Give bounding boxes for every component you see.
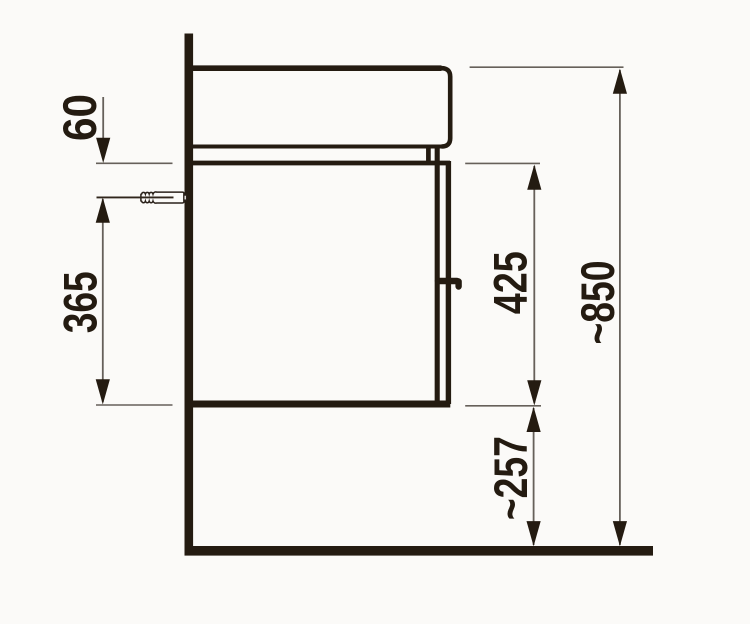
cabinet door: [446, 161, 451, 404]
wall plug screw axis: [97, 196, 174, 198]
dim 850 line: [619, 70, 621, 545]
extension line cabinet top left: [96, 162, 173, 164]
svg-text:425: 425: [484, 251, 537, 314]
extension line basin top right: [470, 66, 624, 68]
washbasin top rim: [188, 65, 442, 71]
dim 257 line: [533, 408, 535, 545]
extension line cabinet bottom right: [465, 405, 541, 407]
dim 257 top arrow: [527, 407, 541, 432]
cabinet bottom panel: [188, 401, 450, 408]
dim 425 bottom arrow: [527, 380, 541, 405]
door handle: [438, 281, 459, 287]
wall plug tip nub: [184, 195, 187, 200]
extension line cabinet bottom left: [96, 404, 173, 406]
wall bracket: [426, 146, 431, 163]
dim 60 line: [102, 97, 104, 142]
dim 850 bottom arrow: [613, 521, 627, 546]
cabinet top panel: [188, 161, 450, 166]
svg-text:~257: ~257: [484, 436, 537, 520]
dim 365 line: [102, 199, 104, 402]
washbasin right edge: [442, 68, 451, 146]
wall plug dowel: [141, 192, 184, 203]
svg-text:365: 365: [53, 271, 106, 333]
washbasin bottom: [188, 145, 443, 149]
wall: [185, 34, 194, 555]
dim 365 bottom arrow: [96, 379, 110, 404]
extension line cabinet top right: [465, 162, 540, 164]
dim 425 top arrow: [527, 165, 541, 190]
dim 425 line: [533, 166, 535, 403]
floor: [185, 546, 654, 556]
svg-text:~850: ~850: [571, 261, 624, 345]
dim 850 top arrow: [613, 69, 627, 94]
cabinet side: [435, 145, 440, 404]
dim 60 arrow: [96, 138, 110, 163]
dim 257 bottom arrow: [527, 521, 541, 546]
dim 365 top arrow: [96, 198, 110, 223]
svg-text:60: 60: [53, 94, 106, 141]
